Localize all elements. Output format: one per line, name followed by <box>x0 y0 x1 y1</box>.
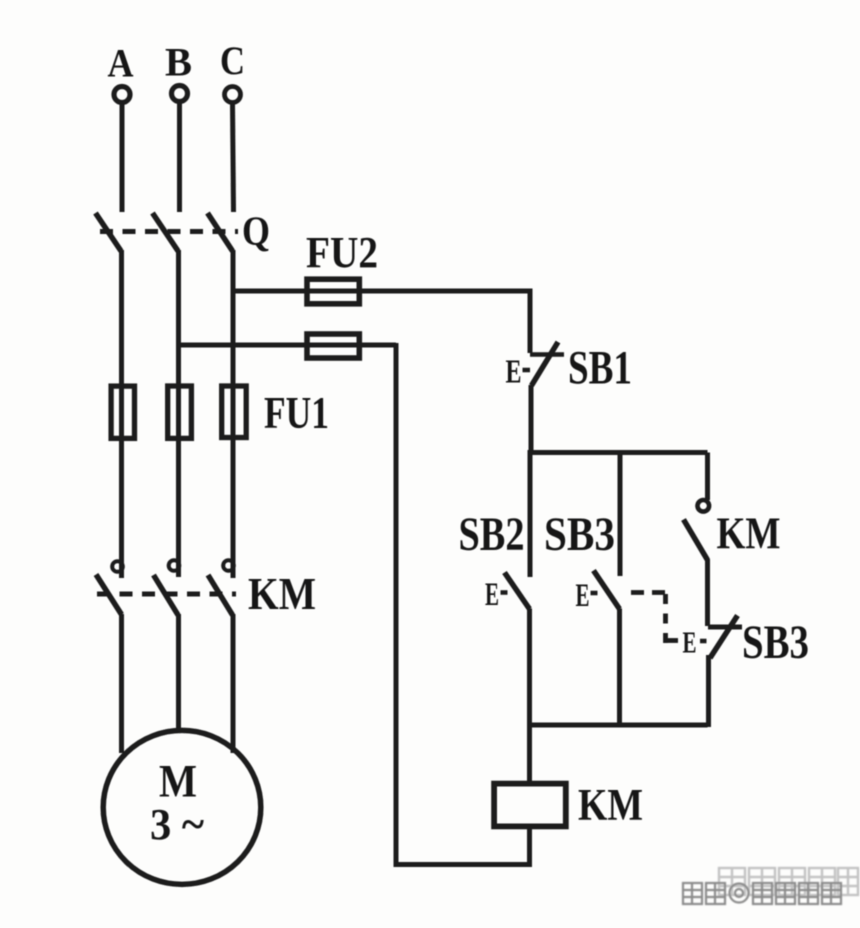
wire SB2 lower <box>527 609 532 728</box>
contactor KM main pole A hook <box>112 561 123 572</box>
wire FU2 lower feed <box>179 343 396 348</box>
wire motor lead A <box>119 614 124 753</box>
pushbutton SB3 (NO) blade <box>594 571 620 610</box>
Q linkage dashed <box>100 229 238 234</box>
coil KM <box>494 784 566 827</box>
pushbutton SB3 NC actuator dash <box>700 639 707 644</box>
pushbutton SB2 (NO) blade <box>505 573 530 610</box>
motor M <box>103 730 261 884</box>
pushbutton SB3 actuator dash <box>591 591 598 596</box>
svg-text:KM: KM <box>578 780 643 830</box>
contactor KM main pole B hook <box>169 560 180 571</box>
wire phase C upper <box>233 103 234 212</box>
svg-text:E: E <box>576 578 590 614</box>
wire control main down to SB1 <box>528 289 533 354</box>
wire phase B upper <box>177 102 182 212</box>
terminal C <box>225 87 241 103</box>
contactor KM main pole B blade <box>154 575 179 615</box>
disconnect Q pole B blade <box>153 213 179 251</box>
wire SB3 lower <box>617 609 622 728</box>
svg-text:E: E <box>683 625 697 660</box>
contact KM auxiliary blade <box>684 520 708 561</box>
wire KM aux to SB3 NC <box>705 559 710 626</box>
disconnect Q pole C blade <box>208 213 233 251</box>
wire node horizontal <box>530 450 708 455</box>
svg-text:C: C <box>220 38 245 83</box>
wire bottom rail of branches <box>530 723 708 728</box>
wire phase C middle <box>231 250 236 578</box>
svg-text:SB1: SB1 <box>568 342 632 395</box>
wire SB3 NC lower <box>706 655 711 727</box>
wire right branch upper <box>705 453 710 501</box>
contactor KM main pole C hook <box>223 560 234 571</box>
fuse FU1 pole A <box>111 386 134 438</box>
contact KM auxiliary hook <box>698 500 710 512</box>
contactor KM main pole A blade <box>96 575 122 615</box>
KM main linkage dashed <box>97 592 236 597</box>
svg-text:A: A <box>108 41 134 86</box>
disconnect Q pole A blade <box>96 213 122 251</box>
wire phase B middle <box>176 250 181 577</box>
svg-text:KM: KM <box>248 568 316 619</box>
wire SB2 upper <box>528 450 533 577</box>
svg-text:FU2: FU2 <box>306 228 378 277</box>
linkage dashed vertical <box>663 594 668 644</box>
wire return riser <box>394 343 399 867</box>
svg-text:KM: KM <box>717 509 781 559</box>
linkage dashed bottom <box>666 638 678 643</box>
fuse FU2 lower <box>307 334 359 358</box>
svg-text:FU1: FU1 <box>264 387 329 438</box>
wire to coil <box>527 725 532 782</box>
svg-text:SB3: SB3 <box>742 616 809 669</box>
pushbutton SB1 actuator dash <box>523 368 531 373</box>
fuse FU1 pole C <box>222 386 247 438</box>
contactor KM main pole C blade <box>208 575 233 615</box>
pushbutton SB3 (NC) seat bar <box>708 625 742 630</box>
wire SB1 to node <box>529 385 534 455</box>
pushbutton SB1 (NC) seat bar <box>530 352 564 357</box>
svg-text:E: E <box>506 354 522 391</box>
pushbutton SB3 (NC) blade <box>710 616 738 659</box>
wire FU2 upper feed <box>233 289 530 294</box>
linkage dashed horizontal <box>631 590 666 595</box>
svg-text:SB2: SB2 <box>459 508 525 561</box>
fuse FU1 pole B <box>168 386 192 438</box>
wire motor lead B <box>176 614 181 731</box>
svg-text:3 ~: 3 ~ <box>150 800 204 849</box>
svg-text:B: B <box>165 40 192 85</box>
pushbutton SB2 actuator dash <box>501 590 508 595</box>
wire phase A middle <box>119 250 124 578</box>
wire phase A upper <box>120 103 125 212</box>
terminal B <box>172 86 188 102</box>
pushbutton SB1 (NC) blade <box>532 342 559 386</box>
fuse FU2 upper <box>307 279 359 304</box>
svg-text:Q: Q <box>242 208 270 254</box>
wire mid branch upper <box>618 453 623 577</box>
wire motor lead C <box>231 614 236 753</box>
svg-text:E: E <box>485 577 499 613</box>
wire bottom return <box>394 862 533 867</box>
wire coil bottom <box>527 829 532 867</box>
svg-text:SB3: SB3 <box>544 508 615 561</box>
terminal A <box>114 87 130 103</box>
